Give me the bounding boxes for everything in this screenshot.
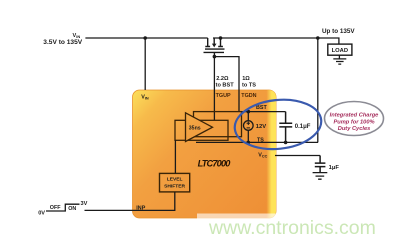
wire TS line [196, 141, 318, 143]
svg-text:0.1μF: 0.1μF [295, 124, 311, 130]
node VIN junction dot [143, 36, 147, 40]
wire source bottom stub [247, 130, 249, 142]
load box [328, 44, 352, 55]
svg-text:TGDN: TGDN [241, 93, 256, 99]
svg-text:ON: ON [68, 206, 76, 212]
wire INP input [85, 192, 175, 211]
svg-text:LOAD: LOAD [332, 48, 348, 54]
capacitor C2 1uF [315, 156, 326, 173]
capacitor C1 0.1uF [279, 112, 292, 143]
svg-text:2.2Ω: 2.2Ω [216, 76, 229, 82]
svg-text:OFF: OFF [50, 205, 61, 211]
input step waveform [46, 204, 80, 211]
level shifter box U2 [160, 173, 190, 192]
svg-text:3.5V to 135V: 3.5V to 135V [43, 39, 82, 46]
svg-text:1Ω: 1Ω [242, 76, 250, 82]
svg-text:TGUP: TGUP [216, 93, 231, 99]
watermark band [197, 214, 398, 229]
svg-text:www.cntronics.com: www.cntronics.com [208, 217, 376, 239]
svg-text:1μF: 1μF [329, 165, 340, 171]
voltage source 12V charge pump [244, 121, 254, 131]
op-amp driver triangle 35ns [186, 113, 213, 142]
wire gate to TGUP [213, 57, 215, 121]
wire source sense down [317, 38, 319, 142]
driver stage rectangle 1 [175, 120, 228, 140]
svg-text:Up to 135V: Up to 135V [322, 28, 355, 35]
svg-text:INP: INP [136, 206, 145, 212]
wire BST node [242, 111, 286, 113]
ground under C2 [313, 173, 328, 180]
svg-text:SHIFTER: SHIFTER [164, 184, 185, 190]
driver stage rectangle 2 [194, 112, 242, 137]
annotation bubble integrated charge pump [325, 102, 384, 136]
node TS dot2 [284, 141, 288, 145]
svg-text:12V: 12V [256, 124, 266, 130]
svg-text:Integrated Charge: Integrated Charge [330, 113, 379, 119]
node TS dot1 [247, 141, 251, 145]
transistor Q1 N-channel MOSFET [204, 38, 225, 57]
node gate dot [213, 55, 217, 59]
svg-text:BST: BST [256, 105, 267, 111]
svg-text:Pump for 100%: Pump for 100% [333, 119, 374, 125]
annotation blue ellipse [232, 96, 323, 154]
IC block LTC7000 body [133, 90, 277, 218]
node VIN label left [43, 33, 82, 46]
svg-text:to TS: to TS [242, 83, 256, 89]
wire gate to TGDN [214, 57, 239, 112]
wire top rail right [213, 38, 339, 44]
svg-text:LTC7000: LTC7000 [198, 159, 232, 169]
node load branch dot [316, 36, 320, 40]
wire level shifter to driver [174, 140, 176, 173]
svg-text:35ns: 35ns [189, 126, 201, 132]
wire VCC line [275, 155, 320, 157]
svg-text:3V: 3V [81, 201, 88, 207]
node Q1 source dot [219, 36, 223, 40]
ground under load [333, 55, 346, 64]
wire VIN pin down [144, 38, 146, 90]
svg-text:Duty Cycles: Duty Cycles [338, 126, 371, 132]
node BST dot [247, 110, 251, 114]
svg-text:0V: 0V [38, 210, 45, 216]
wire top rail left [85, 37, 207, 39]
wire source top stub [247, 112, 249, 121]
svg-text:to BST: to BST [216, 83, 235, 89]
svg-text:LEVEL: LEVEL [167, 177, 183, 183]
